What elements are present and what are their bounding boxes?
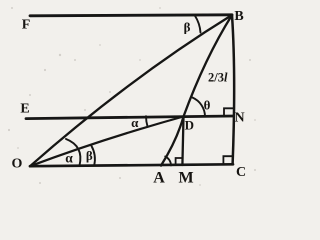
svg-text:O: O [12,157,23,172]
line FB (top horizontal) [30,15,232,16]
angle arc beta at B [195,16,201,33]
line BC (right vertical) [232,15,234,164]
angle arc theta at D [192,98,205,117]
svg-text:α: α [65,151,73,166]
line EN (middle horizontal) [26,116,234,119]
svg-text:β: β [184,20,191,35]
angle arc at A [165,156,171,165]
line OD [30,117,184,167]
angle arc alpha at D [146,116,148,127]
right-angle mark at C [223,156,232,164]
right-angle mark at M [176,158,183,165]
angle arc beta at O [92,146,95,165]
line OC (ground) [30,164,233,166]
svg-text:B: B [234,9,243,24]
svg-text:F: F [22,18,31,33]
paper background [0,0,265,191]
svg-text:2/3l: 2/3l [208,71,228,85]
svg-text:E: E [20,102,29,117]
line DM (vertical from D) [182,117,183,166]
svg-text:A: A [153,170,165,187]
svg-text:D: D [185,118,194,133]
right-angle mark at N [224,108,233,116]
svg-text:M: M [178,170,193,187]
svg-text:α: α [131,115,139,130]
svg-text:N: N [234,110,244,125]
line OB [30,15,232,166]
svg-text:β: β [86,148,93,163]
paper noise speckles [8,7,256,186]
line BD (labelled 2/3 l) [184,15,233,117]
line DA [161,117,184,166]
svg-text:C: C [236,165,246,180]
svg-text:θ: θ [204,98,211,113]
angle arc alpha at O [66,139,80,166]
